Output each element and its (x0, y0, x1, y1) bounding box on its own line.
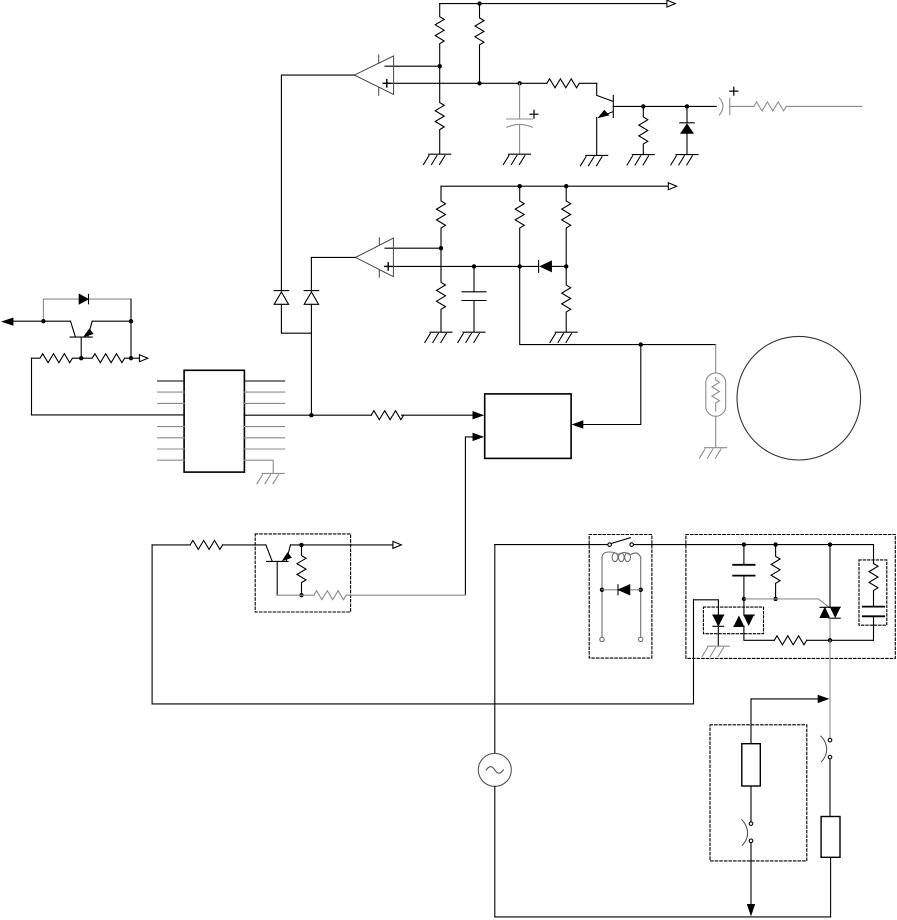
node junction R5 (641, 104, 645, 108)
node junction top-C4 (742, 542, 746, 546)
diode D2 from U2 (304, 291, 319, 416)
wire triac gate (744, 599, 829, 607)
wire Q3 top out (291, 544, 393, 546)
ground GND1 (424, 154, 451, 164)
optocoupler box dashed (255, 534, 350, 612)
diode D8 zener (713, 615, 724, 646)
node junction rail2-R7 (518, 184, 522, 188)
wire op-amp U2 inverting input (385, 247, 441, 249)
resistor R1 (435, 4, 444, 67)
capacitor C5 (863, 607, 884, 641)
capacitor C1 polarized (507, 83, 533, 154)
node junction rail2-R8 (564, 184, 568, 188)
node junction plus2-R7 (518, 264, 522, 268)
wire breaker to heater R21 (829, 759, 831, 817)
node opto open arrow (393, 541, 401, 548)
AC source V1 (478, 753, 511, 786)
resistor R19 (869, 564, 878, 607)
bottom load box dashed (710, 725, 807, 861)
node junction DC bus (309, 413, 313, 417)
heater R21 (821, 817, 840, 858)
lamp thermal sensor (700, 373, 727, 458)
IC U3 ground pin (244, 460, 284, 484)
ground GND8 (550, 332, 577, 342)
diode D1 to DC bus (274, 291, 311, 334)
node block right arrow (572, 420, 584, 428)
wire L to diode D8 (694, 600, 719, 615)
wire R13 to block (402, 414, 473, 416)
breaker SW3 (742, 820, 753, 846)
node junction plus-R2 (477, 81, 481, 85)
transistor Q1 (597, 95, 614, 155)
node junction plus2-C3 (472, 264, 476, 268)
wire Q1 base line (613, 105, 716, 107)
node junction inverting input (438, 64, 442, 68)
wire R4 to transistor (597, 83, 613, 101)
ground GND4 (627, 155, 654, 165)
IC U3 left pins (158, 392, 185, 460)
resistor R11 horizontal (32, 354, 82, 363)
wire IC pin4 row to DC node (244, 414, 311, 416)
node junction anode (41, 319, 45, 323)
relay box dashed (589, 535, 652, 659)
wire relay feed (495, 544, 608, 546)
wire R18 to snubber RC (807, 639, 874, 641)
node block left arrow 1 (473, 411, 485, 419)
wire into load box (750, 699, 752, 744)
node block left arrow 2 (473, 433, 485, 441)
wire top supply rail 1 (440, 3, 667, 5)
resistor R15 (297, 545, 306, 595)
inner RC box dashed (859, 560, 887, 625)
breaker SW2 (821, 736, 832, 762)
wire output to left arrow (13, 320, 71, 322)
inner diode box dashed (703, 607, 763, 634)
resistor R7 (515, 186, 524, 266)
diode D4 (539, 260, 567, 272)
wire opto input (152, 544, 190, 546)
wire to block right input (584, 345, 641, 425)
node arrow into breaker branch (818, 695, 830, 703)
node rail2 output arrow (668, 183, 676, 190)
wire PUT top loop (43, 298, 131, 300)
node junction inverting2 (439, 246, 443, 250)
op-amp U1 (354, 55, 393, 96)
wire left branch down (42, 299, 44, 321)
node open arrow (139, 355, 147, 362)
resistor R14 horizontal (190, 540, 222, 549)
node junction R17-gate (773, 597, 777, 601)
node junction lamp line (639, 342, 643, 346)
ground GND7 (458, 332, 485, 342)
wire SW3 down (750, 843, 752, 904)
wire op-amp U1 output (281, 75, 354, 291)
node junction top-triac (828, 542, 832, 546)
wire R14 to opto (223, 544, 266, 546)
node junction R15-R16 (299, 593, 303, 597)
IC U3 right pins (244, 392, 284, 449)
switch SW1 contact left (608, 543, 612, 547)
wire op-amp U2 non-inverting input (385, 265, 539, 267)
capacitor C4 (733, 545, 754, 599)
ground GND2 (503, 154, 530, 164)
resistor R10 (562, 266, 571, 331)
node junction R11-R12 (79, 356, 83, 360)
relay terminal 2 (639, 637, 643, 641)
wire C2 to R6 (730, 105, 754, 107)
capacitor C2 polarized series (719, 87, 738, 115)
wire top to RC (873, 545, 875, 564)
node junction triac-bottom (828, 638, 832, 642)
op-amp U2 (356, 238, 394, 278)
heater R20 (742, 744, 761, 786)
wire relay out (634, 544, 874, 546)
wire to open arrow right (131, 357, 139, 359)
block U4 converter (485, 394, 571, 459)
wire R6 output (786, 105, 862, 107)
node junction R12-out (129, 356, 133, 360)
wire feedback riser (465, 437, 472, 595)
snubber box dashed (686, 535, 895, 659)
resistor R18 horizontal (774, 636, 806, 645)
resistor R6b (437, 186, 446, 248)
wire AC to bottom rail (494, 786, 496, 917)
diode D3 (680, 106, 694, 154)
wire triac output drop (829, 640, 831, 738)
node junction plus-C1 (517, 81, 521, 85)
diac D10 (734, 599, 774, 640)
resistor R6 horizontal (754, 102, 786, 111)
diode D9 flyback (602, 585, 641, 595)
IC U3 pin1 right (244, 380, 284, 382)
wire live branch arrow (751, 698, 818, 700)
capacitor C3 (462, 266, 486, 331)
resistor R3 (435, 66, 444, 154)
wire left drop to IC pin4 (32, 358, 185, 415)
wire Q2 cathode to bus (92, 299, 131, 358)
node junction coil-D9 right (639, 588, 643, 592)
wire node to lamp (520, 266, 716, 344)
resistor R17 (771, 545, 780, 599)
switch SW1 lever (611, 538, 630, 544)
ground GND5 (671, 155, 698, 165)
resistor R5 (639, 106, 648, 154)
IC U3 pin1 left (158, 380, 185, 382)
diode D5 (79, 294, 88, 303)
wire feedback run (346, 594, 465, 596)
node junction rail1-R2 (477, 1, 481, 5)
wire DC node to R13 (311, 414, 371, 416)
node output arrow left (1, 318, 13, 326)
wire op-amp U2 output (311, 257, 355, 290)
node junction top-R17 (773, 542, 777, 546)
node junction coil-D9 left (600, 588, 604, 592)
triac Q4 (820, 545, 840, 641)
resistor R2 (475, 4, 484, 84)
resistor R16 horizontal (314, 591, 346, 600)
resistor R4 horizontal (547, 79, 597, 88)
transistor Q3 opto (266, 545, 292, 595)
IC U3 body (184, 370, 244, 472)
wire big loop left (152, 545, 693, 704)
relay coil L1 (602, 552, 641, 638)
ground GND3 (581, 155, 608, 165)
resistor R9 (437, 248, 446, 332)
relay terminal 1 (600, 637, 604, 641)
transistor Q2 (70, 321, 94, 358)
wire op-amp U1 inverting input (385, 65, 440, 67)
wire op-amp U1 non-inverting input (385, 82, 547, 84)
wire R20 to SW3 (750, 786, 752, 822)
node junction C4-gate (742, 597, 746, 601)
motor M1 (737, 336, 861, 460)
node junction D3 (685, 104, 689, 108)
ground GND9 (702, 646, 729, 656)
wire Q3 emitter row (277, 594, 314, 596)
resistor R8 (562, 186, 571, 266)
node rail1 output arrow (667, 0, 675, 7)
node arrow to neutral rail (747, 904, 755, 916)
wire supply rail 2 (441, 185, 668, 187)
node C1 plus sign (530, 110, 538, 118)
ground GND6 (425, 332, 452, 342)
wire AC riser (494, 545, 496, 754)
node junction Q2-K (129, 319, 133, 323)
resistor R12 horizontal (81, 354, 131, 363)
switch SW1 contact right (630, 543, 634, 547)
wire right rail riser (830, 857, 832, 917)
node junction Q3-R15 (299, 543, 303, 547)
wire bottom rail (495, 916, 831, 918)
resistor R13 horizontal (371, 411, 403, 420)
node junction D4-R8 (564, 264, 568, 268)
